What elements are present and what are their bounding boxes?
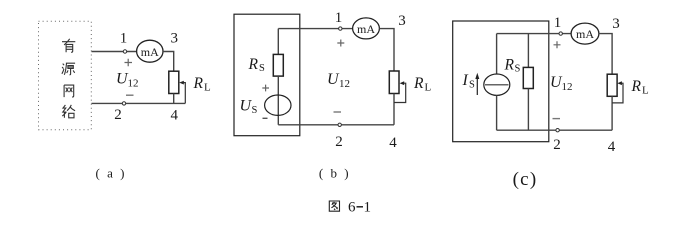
svg-text:( a ): ( a ) [96, 166, 127, 181]
svg-text:3: 3 [612, 16, 620, 32]
minus sign U12 (a) [126, 94, 134, 96]
svg-text:4: 4 [171, 108, 179, 124]
svg-text:R: R [413, 75, 424, 92]
IS direction arrow (c) [476, 78, 478, 96]
svg-text:I: I [462, 72, 469, 89]
svg-text:S: S [469, 80, 475, 91]
plus sign U12 (c) [554, 41, 561, 48]
wire RS branch bottom (c) [527, 89, 529, 131]
svg-text:2: 2 [335, 134, 343, 150]
svg-text:L: L [204, 82, 211, 94]
wire IS branch bottom (c) [496, 95, 498, 130]
svg-text:12: 12 [562, 81, 573, 93]
figure caption 图 (glyph) [329, 201, 339, 211]
wiper arrowhead RL (a) [179, 81, 184, 85]
svg-text:( b ): ( b ) [319, 166, 351, 181]
svg-text:S: S [259, 63, 265, 74]
node 2 terminal dot (a) [122, 102, 125, 105]
active network dashed box [39, 21, 92, 130]
svg-text:6: 6 [348, 200, 356, 216]
wire RS to US (b) [277, 76, 279, 125]
wire bottom (b) [278, 124, 394, 126]
svg-text:3: 3 [171, 31, 179, 47]
label 有 (glyph) [62, 39, 75, 53]
node 2 terminal dot (c) [556, 129, 559, 132]
resistor RS (c) [523, 67, 533, 88]
svg-text:2: 2 [114, 107, 122, 123]
wire meter to corner 3 (a) [163, 52, 174, 72]
plus sign U12 (b) [337, 40, 344, 47]
wire RS branch top (c) [527, 34, 529, 68]
node 1 terminal dot (a) [123, 50, 126, 53]
wire top (a): box to meter [92, 51, 138, 53]
svg-text:1: 1 [364, 200, 372, 216]
source box (b) [234, 14, 300, 136]
svg-text:S: S [515, 64, 521, 75]
minus sign U12 (c) [553, 118, 561, 120]
svg-text:mA: mA [576, 27, 594, 41]
current source IS (c) [484, 74, 510, 95]
resistor RS (b) [273, 54, 283, 76]
svg-text:1: 1 [120, 31, 128, 47]
svg-text:L: L [642, 85, 649, 97]
wire RL bottom (a) [173, 94, 175, 104]
svg-text:3: 3 [398, 13, 406, 29]
svg-text:S: S [252, 105, 258, 116]
node 1 terminal dot (c) [559, 32, 562, 35]
ammeter mA (b) [353, 18, 380, 39]
svg-text:1: 1 [335, 10, 343, 26]
wire source branch top (b) [277, 29, 279, 55]
svg-text:1: 1 [554, 15, 562, 31]
svg-text:4: 4 [389, 135, 397, 151]
wiper arrowhead RL (b) [400, 81, 405, 85]
label 网 (glyph) [64, 85, 74, 97]
ammeter mA (c) [571, 23, 599, 44]
svg-text:L: L [425, 82, 432, 94]
svg-text:R: R [504, 57, 515, 74]
resistor RL (a) [169, 71, 179, 93]
resistor RL (c) [607, 74, 617, 96]
wire RL bottom (c) [611, 96, 613, 130]
wiper arrowhead RL (c) [617, 81, 622, 85]
svg-text:12: 12 [128, 78, 139, 90]
svg-text:mA: mA [141, 45, 159, 59]
svg-text:R: R [248, 56, 259, 73]
ammeter mA (a) [137, 40, 163, 62]
voltage source US (b) [265, 95, 291, 115]
svg-text:R: R [631, 78, 642, 95]
label 源 (glyph) [62, 63, 75, 75]
wire RL bottom (b) [393, 94, 395, 125]
wire bottom (a) [92, 102, 186, 104]
svg-text:2: 2 [553, 137, 561, 153]
wire bottom (c) [497, 129, 612, 131]
minus sign U12 (b) [334, 111, 342, 113]
wire meter to corner 3 (b) [379, 29, 394, 71]
IS bar (c) [485, 84, 509, 86]
wire meter to corner 3 (c) [599, 34, 612, 75]
label 络 (glyph) [62, 105, 75, 118]
node 2 terminal dot (b) [338, 123, 341, 126]
svg-text:mA: mA [357, 22, 375, 36]
plus sign U12 (a) [125, 59, 133, 66]
source box (c) [453, 21, 549, 142]
wiper stub of RL (b) [394, 83, 406, 102]
wire IS branch top (c) [496, 34, 498, 74]
plus sign US (b) [262, 85, 269, 92]
svg-text:(c): (c) [513, 169, 538, 190]
svg-text:R: R [193, 75, 204, 92]
node 1 terminal dot (b) [339, 27, 342, 30]
svg-text:4: 4 [608, 139, 616, 155]
wiper stub of RL (a) [183, 83, 185, 104]
wire top (b) [278, 28, 353, 30]
minus sign US (b) [263, 117, 268, 119]
resistor RL (b) [389, 71, 399, 94]
wiper stub of RL (c) [612, 83, 623, 103]
svg-text:12: 12 [339, 78, 350, 90]
wire top (c) [497, 33, 572, 35]
